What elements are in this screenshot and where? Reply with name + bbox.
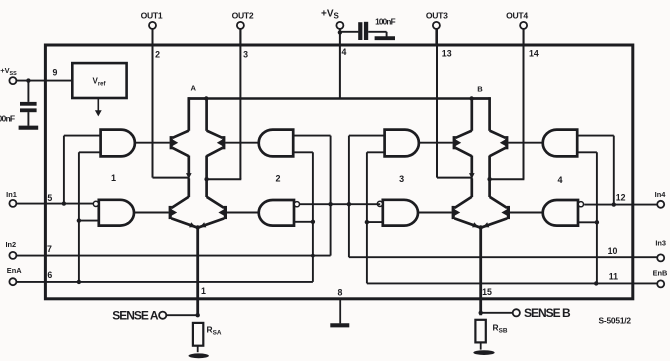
svg-text:4: 4 <box>557 175 562 185</box>
svg-text:1: 1 <box>201 286 206 296</box>
svg-text:5: 5 <box>47 193 52 203</box>
svg-text:In4: In4 <box>655 190 667 199</box>
svg-text:2: 2 <box>155 49 160 59</box>
svg-text:In2: In2 <box>5 240 16 249</box>
svg-text:2: 2 <box>275 174 280 184</box>
svg-text:100nF: 100nF <box>0 114 15 124</box>
svg-text:OUT2: OUT2 <box>232 10 254 20</box>
svg-text:12: 12 <box>616 193 626 203</box>
svg-text:3: 3 <box>399 174 404 184</box>
svg-text:A: A <box>190 84 196 93</box>
svg-text:B: B <box>477 85 483 94</box>
svg-text:In1: In1 <box>6 190 17 199</box>
svg-text:14: 14 <box>529 48 539 58</box>
svg-text:In3: In3 <box>655 239 666 248</box>
svg-text:SENSE B: SENSE B <box>524 306 571 320</box>
svg-text:OUT3: OUT3 <box>426 10 448 20</box>
svg-text:100nF: 100nF <box>375 18 395 27</box>
svg-text:13: 13 <box>442 48 452 58</box>
svg-text:15: 15 <box>482 287 492 297</box>
svg-text:S-5051/2: S-5051/2 <box>599 315 632 325</box>
svg-text:11: 11 <box>609 272 618 282</box>
svg-text:6: 6 <box>47 270 52 280</box>
svg-text:9: 9 <box>53 68 58 78</box>
svg-text:4: 4 <box>342 47 347 57</box>
svg-text:3: 3 <box>243 50 248 60</box>
svg-text:8: 8 <box>338 287 343 297</box>
svg-text:EnB: EnB <box>653 269 668 278</box>
svg-text:SENSE A: SENSE A <box>112 309 159 323</box>
svg-text:OUT4: OUT4 <box>506 10 528 20</box>
svg-text:1: 1 <box>111 173 116 183</box>
svg-text:EnA: EnA <box>7 266 22 275</box>
svg-text:7: 7 <box>47 244 52 254</box>
svg-text:10: 10 <box>608 246 618 256</box>
svg-text:OUT1: OUT1 <box>141 10 163 20</box>
